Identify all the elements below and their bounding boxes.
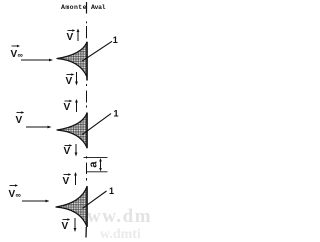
label V vector (panel 1 bottom) — [66, 73, 75, 87]
blade line 1 (panel 2) — [82, 114, 111, 135]
label V vector (panel 2 left) — [16, 111, 25, 126]
arrow V infinity horizontal (panel 1) — [21, 59, 53, 62]
svg-text:V: V — [63, 176, 70, 187]
arrow V down (panel 1 bottom) — [75, 72, 78, 86]
svg-text:1: 1 — [109, 186, 114, 196]
label V vector (panel 1 top) — [67, 29, 76, 43]
velocity profile panel 3 (hatched cusp) — [56, 186, 87, 227]
svg-text:V: V — [64, 146, 71, 157]
svg-text:V: V — [62, 221, 69, 232]
label V infinity (panel 1 left) — [11, 45, 23, 60]
arrow V down (panel 3 bottom) — [74, 218, 77, 232]
svg-text:Aval: Aval — [91, 4, 106, 11]
svg-text:1: 1 — [113, 35, 118, 45]
svg-text:V: V — [9, 189, 16, 200]
arrow V horizontal (panel 2) — [26, 126, 52, 129]
velocity profile panel 1 (hatched cusp) — [57, 42, 87, 81]
velocity profile panel 2 (hatched cusp) — [57, 113, 87, 149]
svg-text:ww.dm: ww.dm — [87, 206, 150, 227]
label V vector (panel 3 top) — [63, 173, 72, 187]
label V vector (panel 2 bottom) — [64, 144, 73, 157]
dimension a (between panel 2 and 3) — [84, 157, 108, 171]
arrow V up (panel 2 top) — [75, 99, 78, 112]
label V vector (panel 3 bottom) — [62, 218, 71, 232]
svg-text:V: V — [66, 76, 73, 87]
watermark www.dm — [87, 206, 152, 242]
svg-text:w.dmti: w.dmti — [100, 227, 141, 242]
svg-text:∞: ∞ — [18, 51, 23, 60]
svg-text:1: 1 — [114, 109, 119, 119]
svg-text:a: a — [87, 161, 99, 168]
svg-text:∞: ∞ — [16, 191, 21, 200]
arrow V down (panel 2 bottom) — [75, 144, 78, 157]
svg-text:V: V — [11, 49, 18, 60]
axis line (dash-dot vertical) — [85, 2, 88, 238]
label V vector (panel 2 top) — [64, 100, 73, 113]
blade line 1 (panel 3) — [83, 191, 107, 208]
svg-text:V: V — [64, 102, 71, 113]
svg-text:V: V — [67, 32, 74, 43]
arrow V infinity horizontal (panel 3) — [22, 200, 50, 203]
blade line 1 (panel 1) — [82, 41, 112, 61]
label V infinity (panel 3 left) — [9, 184, 21, 200]
arrow V up (panel 1 top) — [77, 29, 80, 42]
svg-text:Amonte: Amonte — [61, 4, 87, 11]
arrow V up (panel 3 top) — [74, 172, 77, 185]
svg-text:V: V — [16, 115, 23, 126]
